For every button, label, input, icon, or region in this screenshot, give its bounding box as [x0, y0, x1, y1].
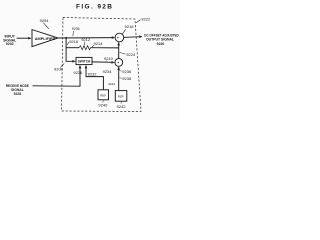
svg-text:9242: 9242	[117, 104, 127, 109]
resistor 9212	[79, 46, 91, 50]
svg-text:REF: REF	[100, 93, 106, 97]
svg-text:9238: 9238	[122, 76, 132, 81]
switch label 9208	[54, 63, 64, 71]
input wire with arrow	[17, 37, 32, 40]
svg-text:9240: 9240	[98, 103, 108, 108]
dashed enclosure box 9222	[62, 18, 142, 112]
output wire with arrow	[124, 35, 143, 38]
receive mode signal label 9228	[6, 84, 30, 96]
svg-text:9244: 9244	[108, 82, 115, 86]
resistor label 9212	[81, 37, 91, 45]
svg-text:+: +	[117, 61, 119, 65]
output signal label 9220	[144, 34, 179, 46]
amplifier label 9204	[40, 18, 50, 29]
vertical wire label 9224	[120, 52, 136, 57]
svg-text:9206: 9206	[72, 27, 80, 31]
svg-text:9218: 9218	[125, 24, 135, 29]
wire label 9232	[88, 72, 98, 77]
wire junction down to switch input	[66, 38, 74, 61]
wire label 9214	[92, 41, 103, 47]
svg-text:AMPLIFIER: AMPLIFIER	[35, 37, 56, 41]
figure title FIG. 92B	[76, 3, 112, 10]
wire label 9244	[108, 82, 115, 86]
wire label 9238	[120, 76, 132, 81]
svg-text:9214: 9214	[94, 41, 104, 46]
reference source box 9242	[115, 91, 127, 102]
amplifier 9204	[32, 30, 58, 47]
node junction on main wire	[65, 37, 67, 39]
svg-text:9234: 9234	[103, 69, 113, 74]
summer U1 (adder) 9218	[115, 33, 124, 42]
svg-text:9202: 9202	[6, 42, 14, 46]
switch 9208	[76, 57, 92, 64]
dashed box label 9222	[136, 17, 151, 23]
wire label 9206	[72, 27, 80, 36]
svg-text:9212: 9212	[81, 37, 91, 42]
svg-text:FIG. 92B: FIG. 92B	[76, 3, 112, 10]
svg-text:9236: 9236	[122, 69, 132, 74]
vertical wire summer2 to summer1 with arrow	[117, 42, 120, 58]
wire right source to summer2 with arrow	[117, 67, 120, 91]
wire resistor to summing line	[91, 47, 119, 49]
wire amplifier to summer 9218	[58, 36, 115, 39]
source label 9242	[117, 102, 127, 109]
svg-text:+: +	[117, 36, 119, 40]
wire label 9236	[120, 69, 132, 74]
svg-text:9224: 9224	[126, 52, 136, 57]
svg-text:SWITCH: SWITCH	[78, 60, 91, 64]
svg-text:OUTPUT SIGNAL: OUTPUT SIGNAL	[146, 38, 174, 42]
svg-text:9232: 9232	[88, 72, 98, 77]
source label 9240	[98, 100, 108, 107]
svg-text:REF: REF	[118, 94, 124, 98]
svg-text:9204: 9204	[40, 18, 50, 23]
arrow into switch	[72, 60, 75, 63]
wire label 9210	[104, 56, 114, 62]
wire left source to switch	[86, 66, 103, 90]
arrow into switch bottom from source	[85, 65, 88, 68]
svg-text:9226: 9226	[73, 70, 83, 75]
wire switch to summer2 with arrow	[92, 61, 115, 64]
receive mode wire into switch	[33, 66, 81, 86]
svg-text:9210: 9210	[104, 56, 114, 61]
summer U2 (adder) 9230	[115, 59, 123, 67]
branch label 9216	[67, 39, 79, 45]
svg-text:9228: 9228	[14, 92, 22, 96]
svg-text:9216: 9216	[69, 39, 79, 44]
summer label 9218	[122, 24, 134, 34]
branch wire to resistor	[66, 47, 79, 49]
svg-text:9220: 9220	[157, 42, 165, 46]
wire label 9234	[103, 69, 113, 74]
svg-text:9208: 9208	[54, 66, 64, 71]
reference source box 9240	[98, 90, 109, 100]
arrow into switch bottom	[79, 65, 82, 68]
wire label 9226	[73, 70, 83, 75]
svg-text:9222: 9222	[141, 17, 151, 22]
input signal label 9202	[3, 35, 17, 47]
